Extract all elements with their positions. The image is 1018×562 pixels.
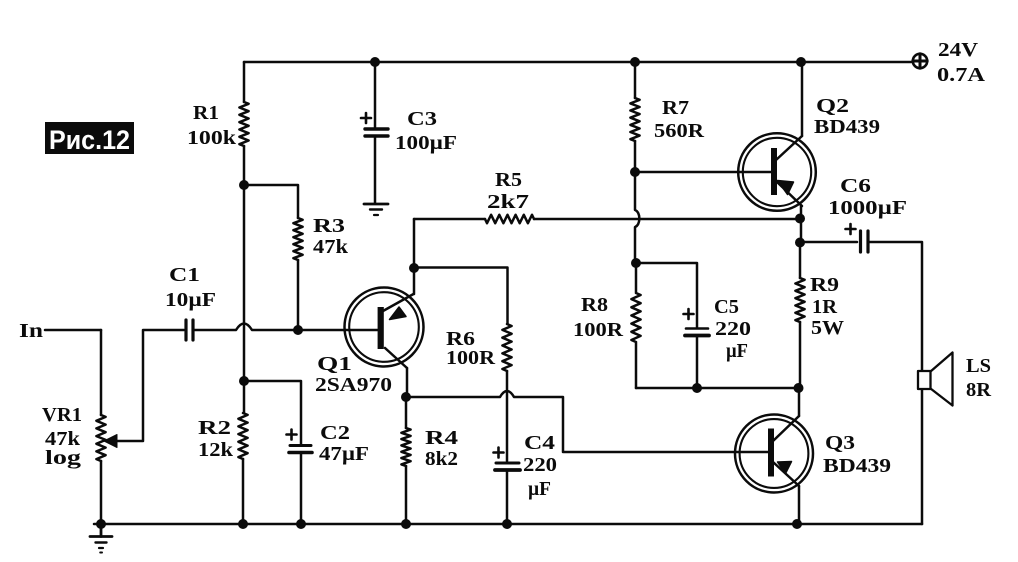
- svg-text:Рис.12: Рис.12: [49, 125, 130, 155]
- transistor Q1 2SA970 circles: [345, 288, 424, 367]
- svg-text:µF: µF: [726, 340, 748, 362]
- transistor Q2 emitter diagonal: [776, 181, 802, 206]
- capacitor C1 plates: [186, 320, 193, 340]
- wire C6 to speaker column: [869, 242, 922, 371]
- svg-text:220: 220: [523, 454, 557, 476]
- svg-text:VR1: VR1: [42, 404, 82, 426]
- wire In lead: [45, 329, 101, 332]
- power terminal 24V: [913, 54, 927, 68]
- resistor R9 1R 5W: [795, 278, 804, 322]
- svg-text:C3: C3: [407, 108, 437, 130]
- node rail-R2: [238, 519, 248, 529]
- svg-text:LS: LS: [966, 355, 991, 377]
- svg-text:C4: C4: [524, 432, 555, 454]
- capacitor C5 220uF plates: [685, 329, 709, 336]
- svg-text:R7: R7: [662, 97, 689, 119]
- wire R9 bottom lead: [799, 322, 802, 388]
- wire C1 to Q1 base with hop over R1 column: [194, 324, 378, 331]
- svg-text:R2: R2: [198, 417, 231, 439]
- svg-text:24V: 24V: [938, 39, 979, 61]
- wire top +24V rail: [244, 61, 913, 64]
- svg-text:8k2: 8k2: [425, 448, 458, 470]
- svg-text:R4: R4: [425, 427, 458, 449]
- wire R5 right lead to Q2 emitter: [534, 218, 800, 221]
- svg-text:100R: 100R: [446, 347, 496, 369]
- wire R7 top lead: [634, 62, 637, 98]
- svg-text:R8: R8: [581, 294, 608, 316]
- wire C3 bottom lead: [374, 138, 377, 204]
- transistor Q2 BD439 circles: [738, 133, 816, 211]
- wire VR1 wiper to C1: [113, 330, 184, 441]
- wire R7 bottom to Q2 base node: [634, 141, 637, 172]
- wire Q2 base lead: [635, 171, 771, 174]
- wire C4 bottom lead: [506, 472, 509, 525]
- node C1/R3/Q1 base: [293, 325, 303, 335]
- svg-text:R5: R5: [495, 169, 522, 191]
- transistor Q3 BD439 circles: [735, 415, 813, 493]
- wire R9 top lead: [799, 243, 802, 278]
- wire C5 branch: [636, 263, 697, 327]
- svg-text:µF: µF: [528, 478, 551, 500]
- svg-text:R1: R1: [193, 102, 219, 124]
- wire R7 node down with hop over R5 wire: [635, 172, 639, 263]
- svg-text:100R: 100R: [573, 319, 624, 341]
- wire node R1/R3 branch: [244, 185, 298, 218]
- node rail-Q3 emitter: [792, 519, 802, 529]
- transistor Q3 collector diagonal: [773, 416, 799, 441]
- wire R5 left lead: [414, 218, 485, 221]
- potentiometer VR1 47k log: [96, 415, 105, 461]
- svg-text:log: log: [45, 447, 81, 469]
- plus sign C4: [494, 448, 504, 458]
- svg-text:Q1: Q1: [317, 353, 352, 375]
- resistor R2 12k: [238, 413, 247, 459]
- wire Q1 collector down: [406, 368, 409, 397]
- transistor Q2 collector diagonal: [776, 136, 802, 160]
- node rail-C3: [370, 57, 380, 67]
- wire R6 bottom to C4: [506, 371, 509, 461]
- resistor R8 100R: [631, 263, 640, 388]
- ground main: [90, 524, 112, 553]
- plus sign C6: [846, 224, 856, 234]
- wire Q2 emitter down: [800, 206, 803, 243]
- wire Q3 emitter to ground rail: [798, 486, 801, 524]
- transistor Q1 collector diagonal: [385, 348, 407, 368]
- wire VR1 bottom lead: [100, 461, 103, 524]
- svg-text:Q3: Q3: [825, 432, 855, 454]
- svg-text:12k: 12k: [198, 439, 234, 461]
- node rail-VR1: [96, 519, 106, 529]
- wire C5 bottom lead: [696, 337, 699, 388]
- svg-text:2SA970: 2SA970: [315, 374, 392, 396]
- node rail-R4: [401, 519, 411, 529]
- wire Q3 collector up to R9 node: [798, 388, 801, 416]
- svg-text:220: 220: [715, 318, 751, 340]
- wire speaker column bottom: [921, 389, 924, 524]
- wire R1 bottom to R2 top: [243, 146, 246, 413]
- capacitor C3 100uF plates: [365, 129, 388, 136]
- wire R1 column: [243, 62, 246, 102]
- svg-text:47µF: 47µF: [319, 443, 369, 465]
- svg-text:Q2: Q2: [816, 95, 849, 117]
- wire R3 bottom lead: [297, 260, 300, 330]
- plus sign C2: [287, 430, 297, 440]
- resistor R7 560R: [630, 98, 639, 141]
- capacitor C6 1000uF plates: [861, 231, 869, 252]
- transistor Q3 emitter diagonal: [773, 462, 799, 486]
- wire Q1 emitter to R5/R6 node: [413, 268, 416, 294]
- resistor R4 8k2: [401, 428, 410, 466]
- svg-text:C5: C5: [714, 296, 739, 318]
- svg-text:R3: R3: [313, 215, 345, 237]
- svg-text:1000µF: 1000µF: [828, 197, 907, 219]
- wire C2 branch: [244, 381, 301, 444]
- svg-text:560R: 560R: [654, 120, 705, 142]
- wire Q2 collector to rail: [801, 62, 804, 136]
- svg-text:C6: C6: [840, 175, 871, 197]
- wire bottom ground rail: [94, 523, 922, 526]
- transistor Q3 base bar: [768, 429, 774, 477]
- node R1/C2: [239, 376, 249, 386]
- node C6/Q2 emitter: [795, 238, 805, 248]
- resistor R5 2k7: [485, 215, 534, 223]
- transistor Q2 emitter arrow (NPN, pointing out): [778, 181, 794, 195]
- wire R8 bottom row: [636, 387, 800, 390]
- node R9/Q3 collector: [794, 383, 804, 393]
- plus sign C3: [361, 113, 371, 123]
- transistor Q1 emitter diagonal: [383, 294, 414, 311]
- svg-text:0.7A: 0.7A: [937, 64, 986, 86]
- label Fig box: [45, 122, 134, 154]
- wire node Q1 emitter to R6 top: [414, 268, 508, 325]
- wire Q1 collector feedback with hop over R6 column, to Q3 base: [406, 391, 768, 452]
- transistor Q2 base bar: [771, 148, 777, 195]
- node C5 bottom: [692, 383, 702, 393]
- transistor Q1 base bar: [378, 307, 384, 349]
- resistor R6 100R: [502, 324, 511, 371]
- svg-text:BD439: BD439: [814, 116, 880, 138]
- svg-text:C1: C1: [169, 264, 200, 286]
- svg-text:BD439: BD439: [823, 455, 891, 477]
- node rail-R7: [630, 57, 640, 67]
- node Q1 collector/R4: [401, 392, 411, 402]
- svg-text:10µF: 10µF: [165, 289, 216, 311]
- wire R4 leads: [405, 397, 408, 524]
- capacitor C4 220uF plates: [495, 463, 520, 470]
- wire R2 bottom lead: [242, 459, 245, 524]
- node rail-C4: [502, 519, 512, 529]
- wire C6 branch: [801, 241, 857, 244]
- svg-text:100µF: 100µF: [395, 132, 457, 154]
- node R8/C5 top: [631, 258, 641, 268]
- svg-text:R9: R9: [810, 274, 839, 296]
- svg-text:C2: C2: [320, 422, 350, 444]
- wiper arrowhead: [104, 435, 117, 448]
- svg-text:1R: 1R: [812, 296, 838, 318]
- svg-text:5W: 5W: [811, 317, 844, 339]
- wire R5 left riser: [413, 219, 416, 268]
- capacitor C2 47uF plates: [289, 446, 312, 453]
- svg-text:8R: 8R: [966, 379, 992, 401]
- node R5/Q2 emitter: [795, 214, 805, 224]
- loudspeaker LS 8R: [918, 371, 931, 389]
- svg-text:100k: 100k: [187, 127, 237, 149]
- ground C3: [364, 204, 388, 215]
- node Q1 emitter/R5/R6: [409, 263, 419, 273]
- node rail-Q2 collector: [796, 57, 806, 67]
- transistor Q3 emitter arrow (NPN, pointing out): [778, 462, 792, 474]
- plus sign C5: [684, 309, 694, 319]
- svg-text:In: In: [19, 320, 43, 342]
- resistor R3 47k: [293, 218, 302, 260]
- node R7/Q2 base: [630, 167, 640, 177]
- node R1/R3: [239, 180, 249, 190]
- svg-text:2k7: 2k7: [487, 191, 529, 213]
- wire C2 bottom lead: [300, 454, 303, 524]
- resistor R1 100k: [239, 102, 248, 146]
- transistor Q1 emitter arrow (PNP, pointing in): [390, 307, 407, 320]
- wire C3 top lead: [374, 62, 377, 127]
- wire VR1 top lead: [100, 330, 103, 415]
- node rail-C2: [296, 519, 306, 529]
- svg-text:47k: 47k: [313, 236, 349, 258]
